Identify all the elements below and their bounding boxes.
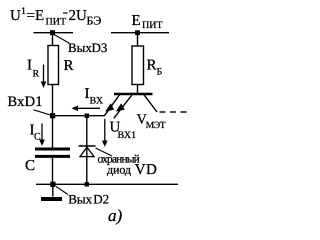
svg-text:VD: VD xyxy=(135,162,157,178)
svg-text:E: E xyxy=(132,13,141,29)
svg-text:ВХ1: ВХ1 xyxy=(118,130,137,141)
svg-text:R: R xyxy=(64,58,74,74)
svg-text:Вых: Вых xyxy=(68,192,92,207)
svg-text:R: R xyxy=(147,58,157,74)
svg-text:С: С xyxy=(34,132,41,143)
svg-text:D3: D3 xyxy=(92,40,108,55)
svg-text:2U: 2U xyxy=(69,8,88,24)
svg-text:диод: диод xyxy=(107,163,131,177)
svg-text:ПИТ: ПИТ xyxy=(46,17,67,28)
svg-text:U: U xyxy=(10,8,21,24)
svg-text:ВХ: ВХ xyxy=(90,96,104,107)
svg-text:Вых: Вых xyxy=(68,40,92,55)
svg-text:ВхD1: ВхD1 xyxy=(8,94,43,110)
svg-text:БЭ: БЭ xyxy=(87,14,102,28)
svg-text:=E: =E xyxy=(27,8,45,24)
svg-text:1: 1 xyxy=(21,6,26,17)
svg-text:МЭТ: МЭТ xyxy=(146,121,166,131)
svg-text:R: R xyxy=(33,69,40,80)
svg-text:C: C xyxy=(25,158,35,174)
svg-text:ПИТ: ПИТ xyxy=(142,20,163,31)
svg-text:D2: D2 xyxy=(93,192,109,207)
svg-text:а): а) xyxy=(108,206,123,225)
svg-text:I: I xyxy=(27,58,32,74)
svg-text:Б: Б xyxy=(157,67,163,78)
